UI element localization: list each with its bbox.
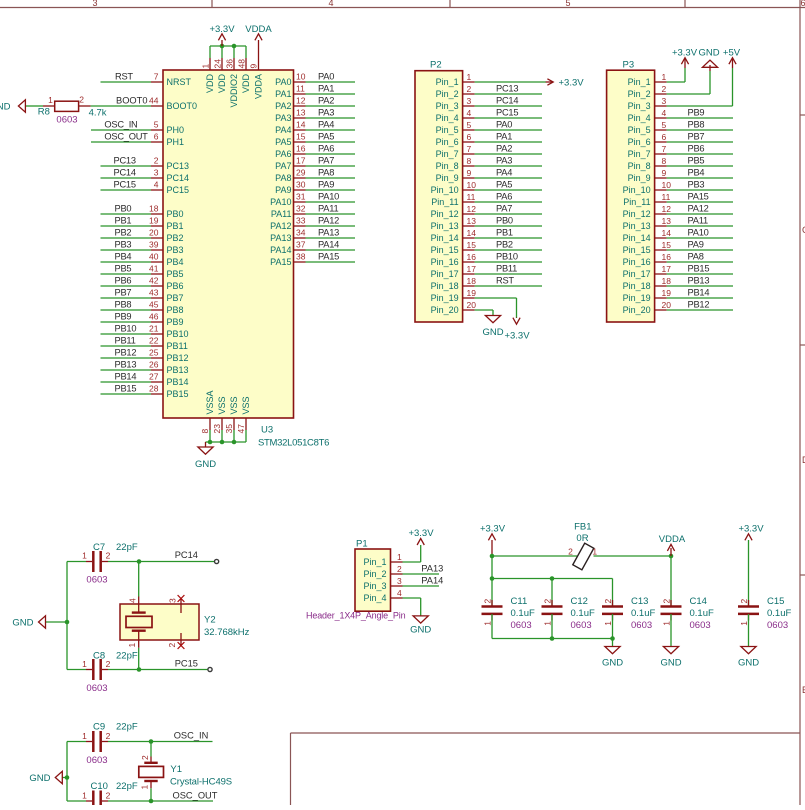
svg-text:36: 36 [225,59,235,69]
U3 pin 34 PA13 (right) [294,237,306,239]
svg-text:2: 2 [154,156,159,166]
ground symbol below C13 [605,647,620,654]
wire VSS stub x=234 [233,430,235,442]
wire net PB3 from P3 pin 10 [667,189,733,191]
svg-text:47: 47 [236,424,246,434]
Y2 pin 4 [138,597,140,613]
svg-text:PC14: PC14 [114,168,136,178]
P1 pin 4 Pin_4 [391,597,403,599]
svg-text:PC14: PC14 [167,173,190,183]
capacitor C12 0.1uF [551,579,553,607]
svg-text:PA9: PA9 [318,180,334,190]
P2 pin 6 Pin_6 [463,141,475,143]
svg-text:11: 11 [296,84,305,94]
wire net PC14 from P2 pin 3 [475,105,542,107]
svg-text:11: 11 [662,192,671,202]
svg-text:PA3: PA3 [275,113,291,123]
svg-text:5: 5 [565,0,570,8]
svg-text:34: 34 [296,228,306,238]
svg-text:Pin_4: Pin_4 [436,113,459,123]
svg-text:Pin_8: Pin_8 [436,161,459,171]
svg-text:6: 6 [662,132,667,142]
P2 pin 13 Pin_13 [463,225,475,227]
junction GND rail Y2 block [65,620,70,625]
U3 pin 47 VSS (bottom) [245,418,247,430]
svg-text:Pin_9: Pin_9 [436,173,459,183]
wire net OSC_OUT to U3 pin 6 [91,141,151,143]
wire net PB0 to U3 pin 18 [101,213,152,215]
svg-text:PB10: PB10 [167,329,189,339]
svg-text:1: 1 [397,552,402,562]
svg-text:8: 8 [200,429,210,434]
title block top line [291,732,801,734]
svg-text:C9: C9 [93,722,105,733]
U3 pin 43 PB7 (left) [151,297,163,299]
svg-text:15: 15 [467,240,477,250]
power symbol +3.3V above P3 [684,58,686,68]
wire net PB10 to U3 pin 21 [101,333,152,335]
svg-text:Pin_20: Pin_20 [431,305,459,315]
svg-text:43: 43 [149,288,159,298]
svg-text:Pin_15: Pin_15 [623,245,651,255]
power symbol +3.3V right of P2 pin 1 [546,81,553,83]
svg-text:Pin_3: Pin_3 [363,581,386,591]
U3 pin 27 PB14 (left) [151,381,163,383]
svg-text:PA11: PA11 [318,204,338,214]
svg-text:PA13: PA13 [421,564,443,574]
svg-text:PH1: PH1 [167,137,185,147]
U3 pin 20 PB2 (left) [151,237,163,239]
svg-text:10: 10 [296,72,306,82]
wire net PB2 from P2 pin 15 [475,249,542,251]
svg-text:PB11: PB11 [115,336,136,346]
wire P2 pin 19 to +3.3V [475,297,517,299]
crystal Y2 body [120,604,199,640]
wire P1 pin 3 PA14 [403,585,440,587]
svg-text:OSC_IN: OSC_IN [104,120,137,130]
wire net PA10 [306,201,356,203]
wire net PA12 [306,225,356,227]
svg-text:Header_1X4P_Angle_Pin: Header_1X4P_Angle_Pin [306,611,406,621]
svg-text:PA1: PA1 [275,89,291,99]
wire net PB1 from P2 pin 14 [475,237,542,239]
wire net PA8 from P3 pin 16 [667,261,733,263]
junction C8 / Y2 pin 1 [137,667,142,672]
svg-text:PB15: PB15 [167,389,189,399]
sheet border top line [0,7,805,9]
U3 pin 24 VDD (top) [221,58,223,70]
connector P2 body [415,71,463,322]
svg-text:1: 1 [603,621,613,626]
U3 pin 8 VSSA (bottom) [209,418,211,430]
wire net PA3 [306,117,356,119]
sheet border right line [799,0,801,805]
wire net PB4 from P3 pin 9 [667,177,733,179]
svg-text:PB3: PB3 [688,180,705,190]
wire net PA11 [306,213,356,215]
P3 pin 14 Pin_14 [655,237,667,239]
U3 pin 33 PA12 (right) [294,225,306,227]
wire P2 pin 20 to GND [475,309,493,311]
svg-text:PB8: PB8 [688,120,705,130]
P3 pin 10 Pin_10 [655,189,667,191]
wire VSS stub x=210 [209,430,211,442]
svg-text:PB10: PB10 [115,324,137,334]
svg-text:PB8: PB8 [115,300,132,310]
junction +3.3V rail [490,554,495,559]
svg-text:Pin_8: Pin_8 [628,161,651,171]
svg-text:3: 3 [662,96,667,106]
VDD power bus wire above U3 [210,45,246,47]
svg-text:Pin_17: Pin_17 [623,269,651,279]
junction C13 bottom / GND [610,636,615,641]
svg-text:PB1: PB1 [167,221,184,231]
svg-text:27: 27 [149,372,159,382]
svg-text:4: 4 [662,108,667,118]
wire net PB5 to U3 pin 41 [101,273,152,275]
svg-text:10: 10 [662,180,672,190]
svg-text:PA15: PA15 [688,192,709,202]
svg-text:PA3: PA3 [318,108,334,118]
svg-text:2: 2 [167,643,177,648]
wire VSS stub x=246 [245,430,247,442]
svg-text:2: 2 [568,547,573,557]
svg-text:Pin_6: Pin_6 [436,137,459,147]
svg-text:0603: 0603 [86,575,107,586]
P3 pin 20 Pin_20 [655,309,667,311]
svg-text:0603: 0603 [767,620,788,631]
svg-text:48: 48 [237,59,247,69]
svg-text:4: 4 [397,588,402,598]
svg-text:19: 19 [149,216,159,226]
svg-text:1: 1 [662,621,672,626]
svg-text:PA9: PA9 [688,240,704,250]
svg-text:PA14: PA14 [318,240,339,250]
wire net PB14 from P3 pin 19 [667,297,733,299]
svg-text:Pin_6: Pin_6 [628,137,651,147]
svg-text:Pin_15: Pin_15 [431,245,459,255]
op-amp U3 body (STM32L051C8T6 microcontroller) [163,70,294,418]
wire net PB6 to U3 pin 42 [101,285,152,287]
capacitor C11 0.1uF [491,579,493,607]
U3 pin 38 PA15 (right) [294,261,306,263]
svg-text:PB14: PB14 [115,372,137,382]
svg-text:PA15: PA15 [270,257,291,267]
U3 pin 30 PA9 (right) [294,189,306,191]
wire net PB15 to U3 pin 28 [101,393,152,395]
svg-text:VDD: VDD [205,74,215,94]
U3 pin 1 VDD (top) [209,58,211,70]
wire net PA5 [306,141,356,143]
svg-text:Y2: Y2 [204,615,216,626]
power symbol +5V above P3 [732,58,734,68]
svg-text:Pin_12: Pin_12 [431,209,459,219]
wire net PC13 from P2 pin 2 [475,93,542,95]
border row tick y=115 [800,114,805,116]
P1 pin 1 Pin_1 [391,561,403,563]
svg-text:14: 14 [296,120,306,130]
svg-text:PB9: PB9 [688,108,705,118]
svg-text:PB5: PB5 [115,264,132,274]
P2 pin 16 Pin_16 [463,261,475,263]
svg-text:PA14: PA14 [421,576,443,586]
svg-text:18: 18 [662,276,672,286]
P2 pin 10 Pin_10 [463,189,475,191]
svg-text:NRST: NRST [167,77,192,87]
svg-text:Pin_4: Pin_4 [628,113,651,123]
svg-text:0R: 0R [576,533,588,544]
svg-text:STM32L051C8T6: STM32L051C8T6 [258,438,329,449]
svg-text:12: 12 [296,96,306,106]
P2 pin 20 Pin_20 [463,309,475,311]
border row tick y=345 [800,344,805,346]
svg-text:4: 4 [128,598,138,603]
wire P3 pin 3 to +5V [667,105,733,107]
wire net PB8 from P3 pin 5 [667,129,733,131]
svg-text:PB6: PB6 [688,144,705,154]
svg-text:2: 2 [106,659,111,669]
wire net PA6 from P2 pin 11 [475,201,542,203]
svg-text:PA1: PA1 [496,132,512,142]
svg-text:Pin_19: Pin_19 [623,293,651,303]
svg-text:VDDA: VDDA [245,24,272,35]
U3 pin 11 PA1 (right) [294,93,306,95]
svg-text:GND: GND [29,773,50,784]
svg-text:Pin_5: Pin_5 [436,125,459,135]
svg-text:3: 3 [397,576,402,586]
svg-text:GND: GND [410,625,431,636]
svg-text:PB11: PB11 [167,341,188,351]
svg-text:22pF: 22pF [116,722,138,733]
svg-text:20: 20 [662,300,672,310]
svg-text:1: 1 [82,551,87,561]
wire net PC14 to U3 pin 3 [101,177,152,179]
wire net PC13 to U3 pin 2 [101,165,152,167]
svg-text:PC15: PC15 [167,185,190,195]
svg-text:Pin_20: Pin_20 [623,305,651,315]
svg-text:0603: 0603 [631,620,652,631]
wire P1 pin 2 PA13 [403,573,440,575]
svg-text:11: 11 [467,192,476,202]
svg-text:20: 20 [467,300,477,310]
svg-text:38: 38 [296,252,306,262]
junction C12 top [550,576,555,581]
P2 pin 14 Pin_14 [463,237,475,239]
wire net PB13 to U3 pin 26 [101,369,152,371]
wire net PB8 to U3 pin 45 [101,309,152,311]
svg-text:1: 1 [662,72,667,82]
ground symbol left of Y2 block [46,621,68,623]
P3 pin 19 Pin_19 [655,297,667,299]
svg-text:33: 33 [296,216,306,226]
wire net PA8 [306,177,356,179]
wire VSS stub x=222 [221,430,223,442]
svg-text:1: 1 [201,64,211,69]
junction VSS pin 35 [232,440,237,445]
svg-text:13: 13 [296,108,306,118]
svg-text:GND: GND [12,618,33,629]
border column tick x=212 [211,0,213,8]
wire VDD stub x=234 [233,46,235,58]
svg-text:PB7: PB7 [688,132,705,142]
svg-text:VSS: VSS [229,396,239,414]
junction at VDD pin 24 [220,44,225,49]
U3 pin 16 PA6 (right) [294,153,306,155]
wire P3 pin 1 to +3.3V [667,81,685,83]
svg-text:U3: U3 [261,425,273,436]
junction VSSA pin 8 [208,440,213,445]
open wire end PC15 [208,667,212,671]
svg-text:10: 10 [467,180,477,190]
svg-text:0.1uF: 0.1uF [631,608,655,619]
U3 pin 48 VDD (top) [245,58,247,70]
wire +3.3V rail to FB1 pin 2 [492,555,577,557]
svg-text:Pin_1: Pin_1 [436,77,459,87]
svg-text:1: 1 [82,731,87,741]
wire net PA7 [306,165,356,167]
svg-text:PA0: PA0 [496,120,512,130]
svg-text:29: 29 [296,168,306,178]
svg-text:P2: P2 [430,60,442,71]
svg-text:PB15: PB15 [688,264,710,274]
wire net PA15 from P3 pin 11 [667,201,733,203]
U3 pin 7 NRST (left) [151,81,163,83]
wire P2 pin 1 to +3.3V [475,81,546,83]
svg-text:1: 1 [483,621,493,626]
svg-text:1: 1 [543,621,553,626]
svg-text:2: 2 [662,84,667,94]
wire net PB9 to U3 pin 46 [101,321,152,323]
svg-text:PB5: PB5 [688,156,705,166]
Y2 pin 3 (no connect) [180,599,182,614]
wire net PB7 to U3 pin 43 [101,297,152,299]
ground symbol above P3 (pointing up) [702,60,717,67]
P3 pin 13 Pin_13 [655,225,667,227]
P3 pin 2 Pin_2 [655,93,667,95]
svg-text:PA7: PA7 [496,204,512,214]
svg-text:30: 30 [296,180,306,190]
svg-text:0.1uF: 0.1uF [690,608,714,619]
svg-text:GND: GND [738,658,759,669]
svg-text:9: 9 [249,64,259,69]
wire net PA13 [306,237,356,239]
svg-text:P1: P1 [356,539,368,550]
junction C10 / Y1 pin 1 [149,799,154,804]
svg-text:PA13: PA13 [318,228,339,238]
svg-text:Pin_1: Pin_1 [628,77,651,87]
wire net PA3 from P2 pin 8 [475,165,542,167]
svg-text:7: 7 [154,72,159,82]
svg-text:Pin_2: Pin_2 [628,89,651,99]
svg-text:32.768kHz: 32.768kHz [204,627,250,638]
svg-text:PA12: PA12 [688,204,709,214]
open wire end PC14 [215,559,219,563]
svg-text:2: 2 [483,599,493,604]
svg-text:RST: RST [115,72,133,82]
svg-text:Crystal-HC49S: Crystal-HC49S [170,776,232,787]
P2 pin 7 Pin_7 [463,153,475,155]
svg-text:24: 24 [213,59,223,69]
Y2 crystal element [132,611,146,613]
connector P1 body [355,549,391,611]
wire bottom rail C11-C13 [492,638,613,640]
svg-text:BOOT0: BOOT0 [167,101,198,111]
svg-text:PC15: PC15 [175,659,198,669]
svg-text:C15: C15 [767,596,784,607]
U3 pin 5 PH0 (left) [151,129,163,131]
wire net PA6 [306,153,356,155]
svg-text:GND: GND [482,327,503,338]
U3 pin 39 PB3 (left) [151,249,163,251]
svg-text:46: 46 [149,312,159,322]
svg-text:+3.3V: +3.3V [738,524,764,535]
svg-text:Pin_12: Pin_12 [623,209,651,219]
svg-text:0.1uF: 0.1uF [767,608,791,619]
svg-text:PB13: PB13 [688,276,710,286]
svg-text:PB1: PB1 [115,216,132,226]
svg-text:4: 4 [154,180,159,190]
svg-text:2: 2 [79,95,84,105]
svg-text:PA4: PA4 [318,120,334,130]
svg-text:PA6: PA6 [275,149,291,159]
power symbol VDDA above U3 [258,40,260,58]
P2 pin 9 Pin_9 [463,177,475,179]
svg-text:Pin_13: Pin_13 [431,221,459,231]
svg-text:0603: 0603 [690,620,711,631]
svg-text:6: 6 [154,132,159,142]
svg-text:+3.3V: +3.3V [504,331,530,342]
U3 pin 12 PA2 (right) [294,105,306,107]
svg-text:2: 2 [106,791,111,801]
svg-text:Pin_1: Pin_1 [363,557,386,567]
U3 pin 45 PB8 (left) [151,309,163,311]
wire net PA10 from P3 pin 14 [667,237,733,239]
junction C9 / Y1 pin 2 [149,739,154,744]
crystal Y1 [150,742,152,757]
ground symbol at R8 [25,105,31,107]
svg-text:Pin_17: Pin_17 [431,269,459,279]
svg-text:42: 42 [149,276,159,286]
capacitor C14 0.1uF [670,556,672,607]
svg-text:PB4: PB4 [115,252,132,262]
svg-text:R8: R8 [38,107,50,118]
svg-text:Pin_14: Pin_14 [431,233,459,243]
svg-text:22pF: 22pF [116,651,138,662]
svg-text:PB2: PB2 [167,233,184,243]
wire net PA15 [306,261,356,263]
wire net PB12 to U3 pin 25 [101,357,152,359]
svg-text:31: 31 [296,192,306,202]
svg-text:PA11: PA11 [271,209,292,219]
svg-text:5: 5 [467,120,472,130]
svg-text:VSS: VSS [217,396,227,414]
Y2 pin 2 (no connect) [180,633,182,646]
svg-text:PA5: PA5 [275,137,291,147]
svg-text:PB3: PB3 [167,245,184,255]
wire P1 pin 4 to GND [403,597,421,599]
U3 pin 42 PB6 (left) [151,285,163,287]
svg-text:PB5: PB5 [167,269,184,279]
svg-text:PA1: PA1 [318,84,334,94]
svg-text:C11: C11 [511,596,528,607]
svg-text:Pin_19: Pin_19 [431,293,459,303]
wire net PA1 from P2 pin 6 [475,141,542,143]
svg-text:40: 40 [149,252,159,262]
svg-text:Pin_9: Pin_9 [628,173,651,183]
svg-text:0.1uF: 0.1uF [511,608,535,619]
svg-text:13: 13 [467,216,477,226]
U3 pin 9 VDDA (top) [258,58,260,70]
